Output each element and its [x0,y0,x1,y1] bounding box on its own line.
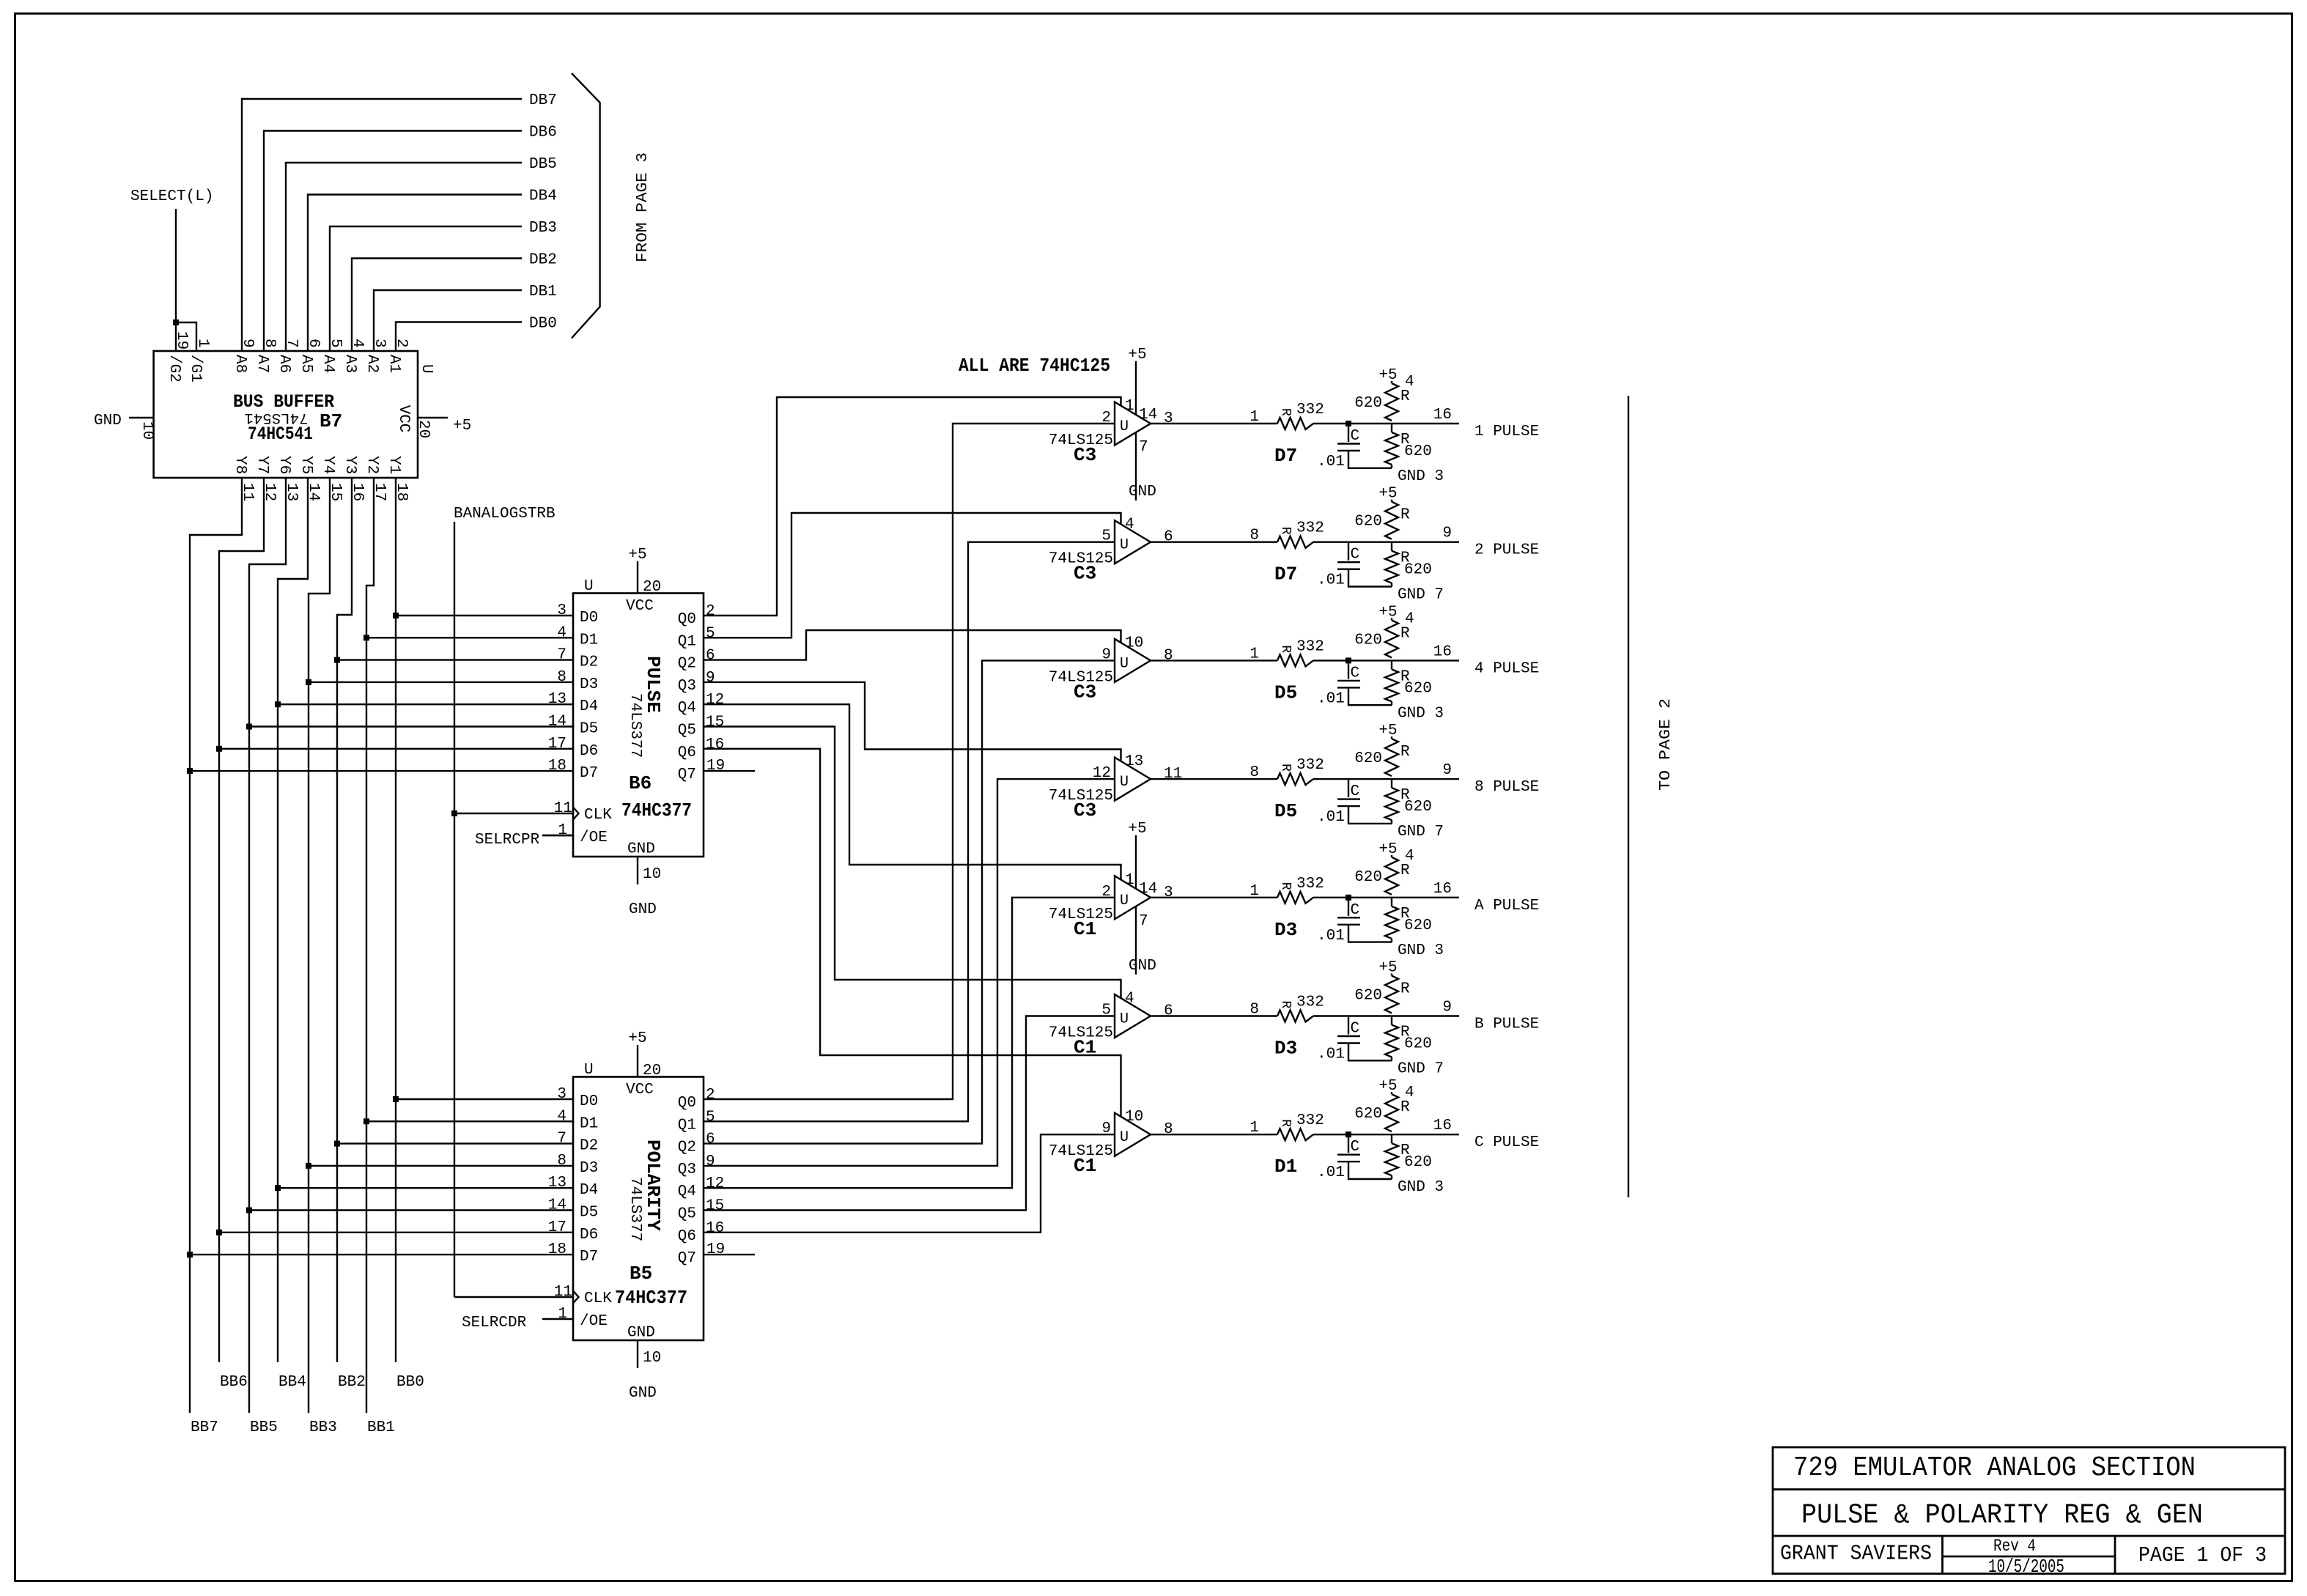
svg-text:D7: D7 [1274,445,1297,467]
svg-text:C: C [1351,783,1360,800]
svg-text:R: R [1278,882,1293,890]
svg-text:BB4: BB4 [278,1374,306,1391]
svg-text:R: R [1400,862,1410,879]
svg-text:PULSE: PULSE [642,656,664,713]
svg-text:7: 7 [557,1131,566,1148]
svg-text:4: 4 [1405,848,1414,865]
svg-text:7: 7 [1139,913,1148,930]
svg-text:17: 17 [548,1219,566,1236]
svg-text:Q3: Q3 [678,678,696,695]
svg-text:9: 9 [1442,762,1452,779]
svg-text:A2: A2 [363,355,380,373]
svg-text:VCC: VCC [395,405,412,433]
svg-text:A4: A4 [320,355,336,373]
svg-text:U: U [418,364,435,374]
svg-text:DB4: DB4 [529,188,557,205]
svg-text:16: 16 [706,1220,724,1237]
svg-text:14: 14 [548,714,566,731]
svg-text:D5: D5 [580,1205,598,1222]
svg-text:8: 8 [1164,647,1173,664]
svg-text:14: 14 [1139,881,1157,898]
svg-text:R: R [1278,408,1293,416]
svg-text:C3: C3 [1074,563,1096,585]
svg-text:U: U [1120,655,1129,672]
svg-text:Q2: Q2 [678,1139,696,1156]
svg-text:+5: +5 [1378,367,1397,384]
svg-text:17: 17 [548,736,566,753]
svg-text:4: 4 [1405,374,1414,391]
svg-text:3: 3 [557,1086,566,1103]
svg-text:.01: .01 [1317,454,1345,470]
svg-text:+5: +5 [1378,960,1397,977]
svg-text:BB6: BB6 [220,1374,248,1391]
svg-text:D1: D1 [580,1115,598,1132]
svg-text:Q1: Q1 [678,1117,696,1134]
svg-text:7: 7 [1139,439,1148,456]
svg-text:620: 620 [1404,1154,1432,1171]
svg-text:DB1: DB1 [529,284,557,300]
svg-text:8: 8 [557,1153,566,1170]
svg-text:D5: D5 [1274,800,1297,822]
svg-text:18: 18 [548,1241,566,1258]
svg-text:POLARITY: POLARITY [642,1139,664,1231]
svg-text:2: 2 [706,603,715,620]
svg-text:3: 3 [1164,884,1173,901]
svg-text:/G2: /G2 [166,355,182,383]
svg-text:VCC: VCC [626,1082,654,1098]
svg-text:3: 3 [557,602,566,619]
svg-text:18: 18 [548,758,566,775]
svg-text:9: 9 [1442,1000,1452,1016]
svg-text:16: 16 [1433,407,1452,424]
svg-text:620: 620 [1404,680,1432,697]
svg-text:GND: GND [94,413,122,429]
svg-text:+5: +5 [1378,604,1397,621]
svg-text:2: 2 [706,1087,715,1104]
svg-text:U: U [1120,1011,1129,1028]
svg-text:10: 10 [643,1350,661,1367]
svg-text:R: R [1400,1099,1410,1116]
svg-text:13: 13 [548,1175,566,1192]
svg-text:Y1: Y1 [385,456,402,474]
svg-text:BB3: BB3 [309,1419,337,1436]
svg-text:D3: D3 [580,676,598,693]
svg-text:.01: .01 [1317,1164,1345,1181]
svg-text:12: 12 [706,1175,724,1192]
svg-text:620: 620 [1404,917,1432,934]
svg-text:13: 13 [1125,753,1143,770]
svg-text:D3: D3 [1274,919,1297,941]
svg-text:CLK: CLK [584,1290,612,1307]
svg-text:19: 19 [706,758,725,775]
svg-text:Y5: Y5 [298,456,314,474]
svg-text:Q7: Q7 [678,766,696,783]
svg-text:BB1: BB1 [367,1419,395,1436]
svg-text:74HC377: 74HC377 [615,1287,687,1309]
svg-text:GND: GND [627,841,655,858]
svg-text:U: U [1120,537,1129,554]
svg-text:C: C [1351,902,1360,919]
svg-text:6: 6 [706,1131,715,1148]
svg-text:15: 15 [706,1198,724,1215]
svg-text:Q5: Q5 [678,1206,696,1223]
svg-text:14: 14 [1139,407,1157,424]
svg-text:A8: A8 [232,355,248,373]
svg-text:11: 11 [1164,766,1182,783]
svg-text:8 PULSE: 8 PULSE [1474,779,1539,796]
svg-text:R: R [1278,764,1293,772]
svg-text:620: 620 [1354,514,1382,531]
svg-text:U: U [1120,1129,1129,1146]
svg-text:4: 4 [1405,610,1414,627]
svg-text:/G1: /G1 [187,355,204,383]
svg-text:10: 10 [643,866,661,883]
svg-text:Y4: Y4 [320,456,336,474]
svg-text:DB2: DB2 [529,252,557,269]
svg-text:Q2: Q2 [678,656,696,673]
svg-text:B5: B5 [630,1263,652,1285]
svg-text:PAGE 1 OF 3: PAGE 1 OF 3 [2138,1543,2267,1567]
svg-text:GND 3: GND 3 [1398,1179,1444,1196]
svg-text:+5: +5 [1378,723,1397,739]
svg-text:620: 620 [1404,1036,1432,1053]
svg-text:Y3: Y3 [342,456,358,474]
svg-text:SELRCPR: SELRCPR [475,832,540,849]
svg-text:D7: D7 [580,1249,598,1266]
svg-text:1: 1 [558,1306,567,1323]
svg-text:+5: +5 [1378,841,1397,858]
svg-text:16: 16 [1433,881,1452,898]
svg-text:D1: D1 [580,632,598,649]
svg-text:GND 7: GND 7 [1398,824,1444,841]
svg-text:+5: +5 [1128,821,1146,838]
svg-text:Y2: Y2 [363,456,380,474]
svg-text:16: 16 [1433,643,1452,660]
svg-text:Q1: Q1 [678,633,696,650]
svg-text:B6: B6 [629,772,652,794]
svg-text:U: U [1120,774,1129,791]
svg-text:C: C [1351,665,1360,681]
svg-text:Y7: Y7 [254,456,270,474]
svg-text:D1: D1 [1274,1156,1297,1178]
svg-text:620: 620 [1354,632,1382,649]
svg-text:GND: GND [1129,484,1156,500]
svg-text:DB0: DB0 [529,316,557,333]
svg-text:R: R [1400,981,1410,998]
svg-text:9: 9 [706,670,715,687]
svg-text:BB7: BB7 [191,1419,218,1436]
svg-text:6: 6 [1164,1003,1173,1020]
svg-text:Rev 4: Rev 4 [1993,1537,2036,1556]
svg-text:BANALOGSTRB: BANALOGSTRB [454,506,555,522]
svg-text:C PULSE: C PULSE [1474,1134,1539,1151]
svg-text:Y8: Y8 [232,456,248,474]
svg-text:6: 6 [706,648,715,665]
svg-text:74HC541: 74HC541 [248,424,313,445]
svg-text:A7: A7 [254,355,270,373]
svg-text:+5: +5 [1378,486,1397,503]
svg-text:SELRCDR: SELRCDR [462,1315,527,1331]
svg-text:8: 8 [1164,1121,1173,1138]
svg-text:74LS377: 74LS377 [627,1177,643,1241]
svg-text:16: 16 [706,736,724,753]
svg-text:DB6: DB6 [529,125,557,141]
svg-text:.01: .01 [1317,1046,1345,1063]
svg-text:GND: GND [629,901,657,918]
svg-text:620: 620 [1404,443,1432,460]
svg-text:A5: A5 [298,355,314,373]
svg-text:8: 8 [557,669,566,686]
svg-text:D5: D5 [580,721,598,738]
svg-text:Q7: Q7 [678,1250,696,1267]
svg-text:R: R [1400,507,1410,524]
svg-text:PULSE & POLARITY REG & GEN: PULSE & POLARITY REG & GEN [1801,1500,2203,1532]
svg-text:+5: +5 [628,547,646,564]
svg-text:Q5: Q5 [678,723,696,739]
svg-text:CLK: CLK [584,807,612,824]
svg-text:A PULSE: A PULSE [1474,898,1539,915]
svg-text:C3: C3 [1074,799,1096,821]
svg-text:C: C [1351,1139,1360,1156]
svg-text:R: R [1400,388,1410,405]
svg-text:5: 5 [706,1109,715,1126]
svg-text:B7: B7 [320,410,342,432]
svg-text:10: 10 [1125,1109,1143,1126]
svg-text:GND: GND [629,1385,657,1402]
svg-text:D6: D6 [580,743,598,760]
svg-text:4: 4 [557,1108,566,1125]
svg-text:DB5: DB5 [529,156,557,173]
svg-text:U: U [1120,418,1129,435]
svg-text:C3: C3 [1074,444,1096,466]
svg-text:A6: A6 [276,355,292,373]
svg-text:FROM PAGE 3: FROM PAGE 3 [635,152,652,262]
svg-text:+5: +5 [1378,1078,1397,1095]
svg-text:D4: D4 [580,698,598,715]
svg-text:D5: D5 [1274,681,1297,703]
svg-text:Q6: Q6 [678,745,696,761]
svg-text:12: 12 [706,692,724,709]
svg-text:729 EMULATOR ANALOG SECTION: 729 EMULATOR ANALOG SECTION [1793,1452,2196,1484]
svg-text:+5: +5 [1128,347,1146,363]
svg-text:+5: +5 [453,418,471,435]
svg-text:D7: D7 [1274,564,1297,585]
svg-text:C3: C3 [1074,681,1096,703]
svg-text:GND 3: GND 3 [1398,705,1444,722]
svg-text:R: R [1400,744,1410,761]
svg-text:.01: .01 [1317,690,1345,707]
svg-text:A3: A3 [342,355,358,373]
svg-text:GND: GND [627,1325,655,1342]
svg-text:R: R [1278,1001,1293,1009]
svg-text:GND 7: GND 7 [1398,1061,1444,1078]
svg-text:GND 3: GND 3 [1398,468,1444,485]
svg-text:4: 4 [1405,1085,1414,1101]
svg-text:C: C [1351,547,1360,564]
svg-text:U: U [1120,893,1129,909]
svg-text:620: 620 [1354,1106,1382,1123]
svg-text:C1: C1 [1074,918,1096,940]
svg-text:9: 9 [1442,525,1452,542]
svg-text:11: 11 [554,800,572,817]
svg-text:C: C [1351,428,1360,445]
svg-text:/OE: /OE [580,1313,608,1330]
svg-text:74LS377: 74LS377 [627,693,643,758]
svg-text:DB7: DB7 [529,92,557,109]
svg-text:620: 620 [1354,395,1382,412]
svg-text:B PULSE: B PULSE [1474,1016,1539,1033]
svg-text:.01: .01 [1317,928,1345,945]
svg-text:14: 14 [548,1197,566,1214]
svg-text:5: 5 [706,625,715,642]
svg-text:BB5: BB5 [250,1419,278,1436]
svg-text:D3: D3 [580,1160,598,1177]
svg-text:D6: D6 [580,1227,598,1244]
svg-text:620: 620 [1354,750,1382,767]
svg-text:Q3: Q3 [678,1161,696,1178]
svg-text:R: R [1400,625,1410,642]
svg-text:A1: A1 [385,355,402,373]
svg-text:16: 16 [1433,1117,1452,1134]
svg-text:4: 4 [557,624,566,641]
svg-text:D0: D0 [580,610,598,627]
svg-text:Q0: Q0 [678,1095,696,1112]
svg-text:1: 1 [558,822,567,839]
svg-text:4 PULSE: 4 PULSE [1474,660,1539,677]
svg-text:74HC377: 74HC377 [621,799,692,821]
svg-text:GND: GND [1129,958,1156,975]
svg-text:1 PULSE: 1 PULSE [1474,424,1539,440]
svg-text:R: R [1278,1119,1293,1127]
svg-text:.01: .01 [1317,809,1345,826]
svg-text:Q4: Q4 [678,1183,696,1200]
svg-text:D3: D3 [1274,1038,1297,1060]
svg-text:BB2: BB2 [338,1374,366,1391]
svg-text:7: 7 [557,647,566,664]
svg-text:TO PAGE 2: TO PAGE 2 [1658,698,1675,791]
svg-text:D2: D2 [580,654,598,671]
svg-text:6: 6 [1164,529,1173,546]
svg-text:+5: +5 [628,1030,646,1047]
svg-text:9: 9 [706,1153,715,1170]
svg-text:13: 13 [548,691,566,708]
svg-text:2 PULSE: 2 PULSE [1474,542,1539,559]
svg-text:SELECT(L): SELECT(L) [130,188,213,205]
svg-text:D4: D4 [580,1182,598,1199]
svg-text:D7: D7 [580,765,598,782]
svg-text:C: C [1351,1021,1360,1038]
svg-text:11: 11 [554,1284,572,1301]
svg-text:3: 3 [1164,410,1173,427]
svg-text:D2: D2 [580,1138,598,1155]
svg-text:620: 620 [1354,869,1382,886]
svg-text:15: 15 [706,714,724,731]
svg-text:620: 620 [1404,799,1432,816]
svg-text:.01: .01 [1317,572,1345,589]
svg-text:C1: C1 [1074,1155,1096,1177]
svg-text:ALL ARE 74HC125: ALL ARE 74HC125 [959,355,1110,377]
svg-text:620: 620 [1404,562,1432,579]
svg-text:Q0: Q0 [678,611,696,628]
svg-text:GRANT SAVIERS: GRANT SAVIERS [1780,1542,1932,1566]
svg-text:19: 19 [706,1241,725,1258]
svg-text:R: R [1278,527,1293,535]
svg-text:D0: D0 [580,1093,598,1110]
svg-text:GND 7: GND 7 [1398,587,1444,604]
svg-text:10: 10 [1125,635,1143,651]
svg-text:R: R [1278,645,1293,653]
svg-text:GND 3: GND 3 [1398,942,1444,959]
svg-text:VCC: VCC [626,598,654,615]
svg-text:Y6: Y6 [276,456,292,474]
svg-text:/OE: /OE [580,830,608,846]
svg-text:BB0: BB0 [396,1374,424,1391]
svg-text:Q6: Q6 [678,1228,696,1245]
svg-text:DB3: DB3 [529,220,557,237]
svg-text:620: 620 [1354,988,1382,1005]
svg-text:Q4: Q4 [678,700,696,717]
